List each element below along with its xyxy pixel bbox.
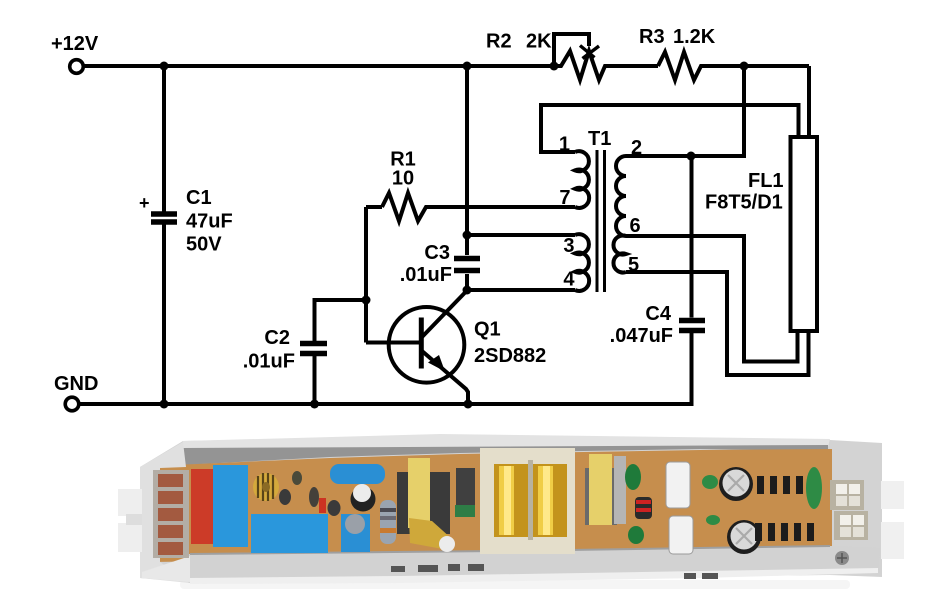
svg-text:.047uF: .047uF — [610, 325, 673, 347]
wire pin 6 to lamp bottom left pin — [626, 236, 798, 362]
black capacitor with white top — [351, 484, 376, 512]
wire pin 5 to lamp bottom right pin — [626, 272, 809, 375]
svg-text:C3: C3 — [424, 242, 450, 264]
svg-text:T1: T1 — [588, 128, 611, 150]
svg-text:4: 4 — [563, 269, 575, 291]
input terminal block — [153, 470, 189, 558]
small transformer ferrite — [397, 458, 452, 550]
svg-text:R2: R2 — [486, 31, 512, 53]
node junction pin2 / C4 — [687, 152, 696, 161]
pcb board — [152, 449, 832, 562]
wire ground rail — [80, 333, 692, 404]
svg-text:50V: 50V — [186, 234, 222, 256]
svg-text:.01uF: .01uF — [400, 264, 452, 286]
red capacitor box — [191, 469, 213, 544]
transistor small 2 — [279, 489, 291, 505]
node junction R3 right — [740, 62, 749, 71]
node junction top rail / C1 — [160, 62, 169, 71]
svg-text:2SD882: 2SD882 — [474, 345, 546, 367]
chassis left bottom highlight — [142, 556, 190, 582]
svg-text:1: 1 — [559, 134, 570, 156]
node junction C2 / ground — [310, 400, 319, 409]
electrolytic capacitor top 2 — [727, 520, 761, 554]
wire pin 4 to collector node — [467, 288, 575, 292]
potentiometer R2 — [486, 31, 658, 81]
svg-text:F8T5/D1: F8T5/D1 — [705, 192, 783, 214]
wire R1 row to pin 7 — [366, 205, 382, 209]
blue box component 1 — [213, 465, 248, 547]
toroid inductor — [253, 473, 279, 501]
transistor Q1 — [389, 291, 547, 405]
blue cylinder capacitor — [330, 464, 385, 484]
svg-text:FL1: FL1 — [748, 170, 784, 192]
wire top rail — [84, 64, 554, 68]
+12V terminal — [70, 60, 84, 74]
svg-text:+: + — [139, 193, 150, 213]
capacitor C1 — [139, 66, 233, 404]
svg-text:GND: GND — [54, 373, 98, 395]
green component mid — [702, 475, 718, 489]
transformer T1 winding 1-7 — [575, 151, 589, 208]
green radial capacitor 1 — [625, 464, 641, 490]
small green component — [706, 515, 720, 525]
svg-text:3: 3 — [563, 235, 574, 257]
GND terminal — [65, 397, 79, 411]
svg-text:+12V: +12V — [51, 33, 99, 55]
diode row 1 — [757, 476, 803, 494]
node junction C2 / base branch — [362, 296, 371, 305]
white clip 1 — [666, 462, 690, 508]
red striped component — [635, 497, 652, 519]
svg-text:1.2K: 1.2K — [673, 26, 716, 48]
white screw center — [439, 536, 455, 552]
output terminal block — [830, 480, 868, 540]
svg-text:C4: C4 — [645, 303, 671, 325]
capacitor C3 — [400, 242, 480, 290]
svg-text:C2: C2 — [264, 327, 290, 349]
svg-text:.01uF: .01uF — [243, 351, 295, 373]
svg-text:2: 2 — [631, 137, 642, 159]
chassis left end plate — [140, 442, 190, 583]
chassis screw right — [835, 551, 849, 565]
capacitor C2 — [243, 300, 366, 404]
wire pin 3 to C3 top node — [467, 233, 575, 237]
chassis shadow — [180, 580, 850, 589]
main transformer — [480, 448, 575, 554]
transistor small 3 — [292, 471, 302, 485]
blue box component 2 — [251, 514, 328, 553]
svg-text:6: 6 — [630, 215, 641, 237]
dark semiconductor block — [455, 468, 475, 517]
capacitor C4 — [610, 156, 705, 347]
pcb front rail — [188, 546, 880, 584]
svg-text:47uF: 47uF — [186, 211, 233, 233]
node junction R2 left — [550, 62, 559, 71]
node junction C1 / ground — [160, 400, 169, 409]
chassis right tabs — [881, 481, 904, 559]
front rail markings — [391, 564, 718, 579]
yellow bobbin 2 — [585, 454, 626, 525]
wire big loop T1 pin1 to lamp top left pin — [541, 105, 799, 152]
green radial capacitor 2 — [628, 526, 644, 544]
transistor small 4 — [309, 487, 319, 507]
svg-text:C1: C1 — [186, 187, 212, 209]
red component small — [319, 498, 326, 513]
electrolytic capacitor top 1 — [719, 467, 753, 501]
wire R3 node down to T1 pin 2 — [626, 66, 744, 156]
transistor small 1 — [328, 500, 341, 516]
resistor R1 — [382, 149, 575, 222]
resistor R3 — [639, 26, 809, 80]
transformer T1 core — [597, 150, 605, 292]
wire +12V vertical to C3 — [465, 66, 469, 255]
transformer T1 winding 3-4 — [575, 234, 589, 291]
wire base — [366, 341, 420, 345]
chassis left tab — [118, 489, 142, 552]
node junction top rail / vertical — [463, 62, 472, 71]
svg-text:R3: R3 — [639, 26, 665, 48]
diode row 2 — [755, 523, 814, 541]
svg-text:7: 7 — [559, 187, 570, 209]
blue round capacitor — [341, 514, 370, 552]
striped resistor — [380, 500, 396, 544]
lamp FL1 — [705, 137, 817, 331]
svg-text:Q1: Q1 — [474, 319, 501, 341]
node junction emitter / ground — [464, 400, 473, 409]
node junction C3 bottom / collector / pin4 — [463, 286, 472, 295]
svg-text:2K: 2K — [526, 31, 552, 53]
wire R1 left vertical — [364, 207, 368, 343]
green capsule — [806, 467, 822, 509]
pcb photo chassis body — [140, 434, 882, 582]
node junction C3 top / pin3 — [463, 231, 472, 240]
svg-text:10: 10 — [392, 168, 414, 190]
transformer T1 winding 2-6-5 — [613, 156, 626, 273]
wire lamp top right pin — [807, 66, 811, 140]
white clip 2 — [669, 516, 693, 554]
